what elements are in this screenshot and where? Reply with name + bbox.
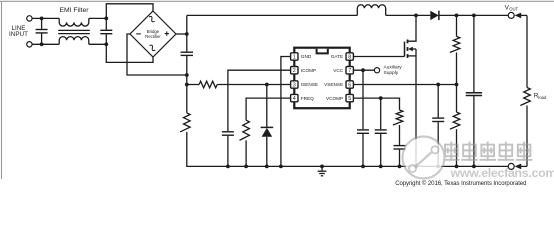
resistor R_freq [240,120,250,140]
inductor L1 bottom winding [59,37,89,45]
svg-text:7: 7 [348,68,351,74]
wire divider mid [456,53,458,113]
node rail junction x456.5 [455,165,459,169]
svg-text:2: 2 [293,68,296,74]
capacitor C1 bulk [181,51,193,53]
node vcc junction [361,68,365,72]
wire bus riser top [186,15,188,51]
node rail junction x438.2 [436,165,440,169]
wire divider top [456,15,458,36]
svg-text:ISENSE: ISENSE [301,82,318,87]
svg-text:4: 4 [293,96,296,102]
svg-text:load: load [538,95,547,100]
capacitor CX2 [105,18,107,29]
wire icomp [228,70,291,131]
wire vcc [353,69,374,71]
svg-text:Copyright © 2016, Texas Instru: Copyright © 2016, Texas Instruments Inco… [395,180,526,187]
bridge AC mark top [148,15,156,22]
wire bus after inductor [386,14,431,16]
svg-text:GATE: GATE [331,54,343,59]
resistor R_isense [199,81,217,88]
svg-text:VSENSE: VSENSE [324,82,343,87]
wire bridge plus to bus [176,33,187,35]
U1 pin 7 VCC [346,67,353,74]
wire vcomp [353,98,399,110]
capacitor C_out [473,15,475,92]
node vsense cap junction [436,83,440,87]
arrow into return terminal [515,164,522,170]
node bridge plus junction [185,32,189,36]
diode D1 boost [430,11,438,20]
capacitor C_vcomp1 [380,98,382,129]
svg-text:GND: GND [301,54,312,59]
node drain junction [414,14,418,18]
node rail junction x380.7 [379,165,383,169]
bridge minus sign [136,33,141,35]
resistor R_vcomp [393,110,403,125]
svg-text:6: 6 [348,82,351,88]
inductor L1 core [58,29,90,31]
wire gate [353,56,404,58]
resistor R_fb_upper [450,36,460,52]
node rail junction x399.5 [398,165,402,169]
capacitor C_vcomp2 [399,125,401,145]
node rail junction x266.8 [265,165,269,169]
svg-text:8: 8 [348,54,351,60]
U1 pin 2 ICOMP [291,67,298,74]
wire gnd pin [281,57,291,167]
node rail junction x322 [320,165,324,169]
diode D2 clamp [261,126,274,128]
wire isense to pin3 [217,84,291,86]
capacitor C_icomp [222,131,234,133]
U1 pin 3 ISENSE [291,81,298,88]
wire diode branch top [266,85,268,128]
node output cap junction [472,14,476,18]
node rail junction x473.9 [472,165,476,169]
transistor Q1 MOSFET [404,42,406,57]
wire VOUT to Rload [526,15,528,87]
terminal return [508,163,514,169]
svg-text:ICOMP: ICOMP [301,68,316,73]
wire input top [32,17,59,19]
node input top junction [40,17,44,21]
svg-text:OUT: OUT [509,7,518,12]
node vcomp junction [379,96,383,100]
wire isense feed [187,84,199,86]
node isense diode junction [265,83,269,87]
svg-text:VCC: VCC [333,68,344,73]
wire divider bottom [456,129,458,166]
wire choke to cap top [89,17,107,19]
terminal auxiliary supply [374,68,379,73]
node rail junction x246.1 [244,165,248,169]
svg-text:EMI Filter: EMI Filter [59,7,89,14]
wire Rload to bottom [526,106,528,167]
node EMI out bottom [104,42,108,46]
wire top bus [187,14,357,16]
U1 pin 6 VSENSE [346,81,353,88]
wire EMI top to bridge AC1 [106,4,153,19]
wire freq [246,98,291,120]
border frame (decor) [0,0,554,2]
node divider top junction [455,14,459,18]
wire shunt to rail [187,132,508,167]
svg-text:1: 1 [293,54,296,60]
wire riser mid [186,56,188,113]
node EMI out top [104,17,108,21]
svg-text:FREQ: FREQ [301,96,314,101]
svg-text:5: 5 [348,96,351,102]
terminal line input top [27,16,32,21]
wire vsense [353,84,456,86]
capacitor C_vcc [362,70,364,129]
svg-text:VCOMP: VCOMP [326,96,343,101]
svg-text:www.elecfans.com: www.elecfans.com [450,166,554,180]
inductor L1 top winding [59,18,89,26]
U1 pin 4 FREQ [291,94,298,101]
node isense tap [185,83,189,87]
resistor R_shunt [180,113,190,132]
terminal VOUT [508,12,514,18]
U1 pin 5 VCOMP [346,94,353,101]
wire rfreq to rail [245,140,247,166]
node minus rail junction [185,73,189,77]
svg-text:3: 3 [293,82,296,88]
wire choke to cap bottom [89,43,107,45]
wire input bottom [32,43,59,45]
bridge rectifier BR1 [130,11,176,57]
wire bridge minus return [127,34,187,75]
arrow into VOUT [515,13,522,19]
wire bus after diode [439,14,508,16]
resistor R_fb_lower [450,112,460,129]
wire EMI bottom to bridge AC2 [106,44,153,62]
op-amp U1 UCC28180 body [294,48,349,108]
node rail junction x416 [414,165,418,169]
node rail junction x227.9 [226,165,230,169]
node input bottom junction [40,42,44,46]
node rail junction x280.9 [279,165,283,169]
watermark elecfans logo and text (decor) [404,138,444,178]
inductor L2 boost [357,5,385,16]
svg-text:Rectifier: Rectifier [145,34,161,39]
bridge plus sign [165,33,169,35]
U1 pin 1 GND [291,53,298,60]
bridge AC mark bottom [148,44,156,51]
node rail junction x363 [361,165,365,169]
svg-text:Auxiliary: Auxiliary [384,64,403,70]
terminal line input bottom [27,42,32,47]
svg-text:Supply: Supply [384,70,399,76]
capacitor CX1 [41,18,43,29]
svg-text:INPUT: INPUT [9,31,28,38]
resistor R_load [520,88,530,106]
U1 pin 8 GATE [346,53,353,60]
ground symbol [321,166,323,171]
capacitor C_vsense [437,85,439,118]
node vsense divider junction [455,83,459,87]
